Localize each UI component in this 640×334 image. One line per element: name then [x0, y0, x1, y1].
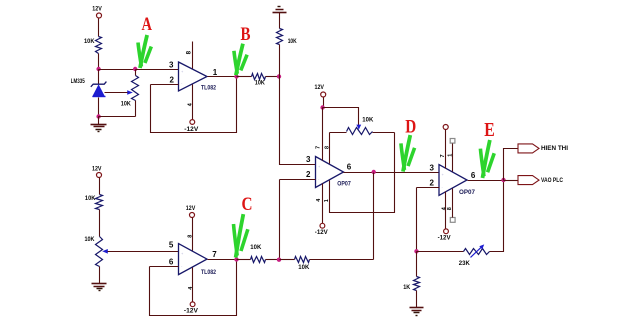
- wire R4 to pot P2: [99, 210, 101, 237]
- wire pot P1 bottom to ground node: [99, 116, 136, 118]
- svg-text:TL082: TL082: [201, 269, 216, 276]
- pin number 8 (rotated) of U2: [188, 235, 194, 238]
- label TL082 of U2: [201, 269, 216, 276]
- label 10K for R2: [255, 79, 265, 86]
- svg-text:10K: 10K: [84, 38, 95, 45]
- svg-text:10K: 10K: [85, 236, 95, 243]
- resistor R2 10K (horizontal): [252, 74, 266, 80]
- junction feedback node (bottom right): [414, 249, 418, 253]
- wire 12V port to R1: [98, 19, 100, 37]
- power port -12V of U2: [184, 302, 199, 315]
- power port -12V of U4: [438, 229, 452, 241]
- wire R1 to node A row: [98, 54, 100, 70]
- svg-text:23K: 23K: [459, 260, 470, 267]
- power port 12V (bottom left): [92, 165, 102, 177]
- op-amp U4 OP07 triangle: [439, 165, 467, 196]
- U3 offset loop pin 1 to trimmer: [330, 133, 395, 213]
- no-connect square pin 1 of U4: [450, 139, 455, 144]
- arrow C (green): [234, 214, 248, 258]
- label 10K for P2: [85, 236, 95, 243]
- junction at pot P1 top: [133, 67, 137, 71]
- wire U3 pin 2 down to feedback node: [279, 180, 281, 260]
- power port 12V of U3: [315, 84, 326, 97]
- svg-text:C: C: [242, 194, 253, 215]
- power port 12V (top left): [92, 6, 102, 18]
- wire ground to R3: [279, 13, 281, 29]
- svg-text:8: 8: [188, 235, 194, 238]
- svg-text:12V: 12V: [92, 165, 102, 172]
- potentiometer P2 10K (vertical): [96, 237, 103, 267]
- svg-text:3: 3: [306, 155, 311, 164]
- junction at ground node (top-left): [96, 114, 100, 118]
- wire pot P1 top to op-amp U1 pin 3: [136, 69, 179, 71]
- junction node D: [372, 170, 376, 174]
- wire 12V to R4: [99, 178, 101, 195]
- svg-text:10K: 10K: [85, 195, 96, 202]
- junction node at LM335 top: [96, 67, 100, 71]
- feedback wire U1 output to pin 2 (loop): [151, 77, 237, 133]
- op-amp U1 TL082 triangle: [179, 62, 208, 91]
- wire node E to VAO PLC: [504, 180, 519, 182]
- label pin 5 of U2: [169, 240, 174, 249]
- svg-text:-12V: -12V: [315, 229, 329, 236]
- label HIEN THI: [541, 145, 568, 152]
- label pin 2 of U3: [306, 170, 311, 179]
- U4 V- pin 4 line: [445, 192, 447, 229]
- svg-text:6: 6: [169, 257, 174, 266]
- wire node down to U3 pin 3: [280, 77, 316, 165]
- label A (red): [142, 14, 153, 35]
- label pin 6 of U4: [471, 171, 476, 180]
- wire R2 to node: [266, 76, 280, 78]
- label 10K for R1: [84, 38, 95, 45]
- pin number 8 (rotated) of U1: [185, 50, 192, 54]
- pin number 4 (rotated) of U4: [442, 206, 448, 210]
- svg-text:10K: 10K: [288, 38, 297, 45]
- wire U4 pin 2 down to feedback node: [416, 188, 418, 252]
- U3 V- pin 4 line: [322, 184, 324, 224]
- svg-text:2: 2: [306, 170, 311, 179]
- wire U1 output to node B: [208, 76, 237, 78]
- power port -12V of U1: [184, 120, 199, 133]
- label 10K for R5: [250, 244, 261, 251]
- label 10K for P1: [121, 101, 131, 108]
- feedback wire node D down: [373, 173, 375, 260]
- svg-text:TL082: TL082: [201, 84, 216, 91]
- label pin 1 of U1: [213, 68, 218, 77]
- U4 pin 8 line: [452, 189, 454, 218]
- wire 12V to junction: [323, 98, 325, 108]
- ground (inverted, top-middle): [273, 7, 287, 13]
- power port 12V of U2: [186, 205, 196, 218]
- wire U3 pin 2: [280, 179, 316, 181]
- svg-text:12V: 12V: [92, 6, 102, 13]
- svg-text:HIEN THI: HIEN THI: [541, 145, 568, 152]
- pin number 1 (rotated) of U4: [448, 154, 454, 157]
- svg-text:1: 1: [448, 154, 454, 157]
- svg-text:3: 3: [169, 60, 174, 69]
- svg-text:10K: 10K: [255, 79, 265, 86]
- svg-text:8: 8: [447, 207, 453, 210]
- svg-text:E: E: [484, 119, 495, 141]
- label OP07 of U4: [459, 189, 476, 196]
- wire U2 output to node C: [208, 259, 237, 261]
- svg-text:LM335: LM335: [71, 79, 85, 85]
- wire pot P2 to ground: [99, 267, 101, 284]
- feedback wire U2 output to pin 6 (loop): [150, 260, 237, 316]
- svg-text:OP07: OP07: [337, 181, 351, 188]
- svg-text:B: B: [241, 24, 251, 45]
- U2 V- pin 4 line: [192, 268, 194, 302]
- U3 V+ pin 7 line: [322, 108, 324, 161]
- junction node E: [501, 178, 505, 182]
- junction node B: [234, 74, 238, 78]
- svg-text:2: 2: [170, 76, 175, 85]
- connector HIEN THI (arrow port): [518, 144, 539, 153]
- wire U1 pin 2: [151, 84, 179, 86]
- U1 V+ pin 8 stub (up): [192, 42, 194, 69]
- svg-text:7: 7: [212, 250, 217, 259]
- wire ground node down: [98, 117, 100, 125]
- svg-text:5: 5: [169, 240, 174, 249]
- pin number 4 (rotated) of U2: [188, 286, 194, 290]
- no-connect square pin 8 of U4: [450, 218, 455, 223]
- label pin 6 of U3: [347, 163, 352, 172]
- label pin 3 of U1: [169, 60, 174, 69]
- label pin 2 of U1: [170, 76, 175, 85]
- LM335 sensor (zener symbol): [91, 70, 107, 117]
- pin number 7 (rotated) of U3: [316, 146, 322, 149]
- pin number 8 (rotated) of U4: [447, 207, 453, 210]
- wire node down to R7 1K: [416, 252, 418, 277]
- wiper arrow of trimmer P3: [356, 125, 361, 130]
- svg-text:8: 8: [185, 50, 192, 54]
- connector VAO PLC (arrow port): [518, 176, 539, 185]
- wire node E up to HIEN THI: [504, 149, 519, 181]
- label pin 3 of U3: [306, 155, 311, 164]
- label E (red): [484, 119, 495, 141]
- resistor R6 10K (horizontal): [295, 257, 310, 263]
- arrow E (green): [480, 140, 494, 178]
- U4 pin 1 line: [452, 144, 454, 172]
- wiper of P1 (arrow + wire to LM335): [105, 90, 133, 95]
- label 1K for R7: [403, 284, 410, 291]
- U3 pin 8 line: [329, 133, 331, 164]
- op-amp U2 TL082 triangle: [179, 244, 208, 275]
- U2 V+ pin 8 line: [192, 218, 194, 251]
- wire junction to R6: [280, 259, 295, 261]
- label D (red): [405, 118, 416, 138]
- wire U4 output to node E: [468, 180, 504, 182]
- arrow D (green): [401, 135, 415, 172]
- resistor R4 10K (vertical): [96, 195, 103, 210]
- wire node B to R2: [237, 76, 252, 78]
- wire node to pot P1 top: [99, 69, 136, 71]
- ground (bottom right): [410, 308, 424, 316]
- resistor R7 1K (vertical): [414, 277, 420, 291]
- ground (top-left): [91, 125, 107, 132]
- label C (red): [242, 194, 253, 215]
- resistor R1 10K (vertical): [96, 37, 102, 54]
- svg-text:6: 6: [471, 171, 476, 180]
- trimmer P3 10K (offset null, horizontal): [330, 128, 395, 135]
- arrow B (green): [234, 44, 247, 75]
- label OP07 of U3: [337, 181, 351, 188]
- pin number 4 (rotated) of U1: [188, 102, 194, 106]
- junction at U3 V+ node: [320, 105, 324, 109]
- wire node C to R5: [237, 259, 251, 261]
- label pin 3 of U4: [429, 163, 434, 172]
- svg-text:10K: 10K: [362, 116, 373, 123]
- svg-text:12V: 12V: [186, 205, 196, 212]
- ground (bottom-left): [92, 284, 107, 291]
- label 10K for R4: [85, 195, 96, 202]
- svg-text:7: 7: [440, 154, 446, 157]
- svg-text:10K: 10K: [298, 264, 309, 271]
- svg-text:7: 7: [316, 146, 322, 149]
- op-amp U3 OP07 triangle: [316, 157, 344, 188]
- U4 V+ pin 7 line: [445, 130, 447, 169]
- label 23K for P4: [459, 260, 470, 267]
- svg-text:D: D: [405, 118, 416, 138]
- svg-text:-12V: -12V: [438, 234, 452, 241]
- label 10K for P3: [362, 116, 373, 123]
- potentiometer P1 10K (vertical): [132, 70, 139, 117]
- label LM335: [71, 79, 85, 85]
- wire node to trimmer 23K: [417, 251, 464, 253]
- junction node C: [234, 257, 238, 261]
- label pin 2 of U4: [429, 179, 434, 188]
- junction after R2: [277, 74, 281, 78]
- arrow A (green): [138, 35, 151, 68]
- svg-text:-12V: -12V: [184, 308, 199, 315]
- wire U2 pin 6: [150, 266, 179, 268]
- wiper of P2 (arrow + wire to U2 pin 5): [102, 249, 178, 254]
- junction between R5 and R6: [277, 258, 281, 262]
- resistor R3 10K (vertical): [277, 29, 283, 45]
- pin number 7 (rotated) of U4: [440, 154, 446, 157]
- svg-text:A: A: [142, 14, 153, 35]
- svg-text:1K: 1K: [403, 284, 410, 291]
- pin number 1 (rotated) of U3: [324, 199, 330, 202]
- svg-text:1: 1: [213, 68, 218, 77]
- pin number 4 (rotated) of U3: [316, 198, 322, 202]
- wire 23K to output node (feedback): [490, 181, 504, 252]
- svg-text:6: 6: [347, 163, 352, 172]
- svg-text:12V: 12V: [315, 84, 325, 91]
- wire R5 to junction: [266, 259, 280, 261]
- svg-text:10K: 10K: [250, 244, 261, 251]
- svg-text:2: 2: [429, 179, 434, 188]
- label 10K for R6: [298, 264, 309, 271]
- svg-text:1: 1: [324, 199, 330, 202]
- resistor R5 10K (horizontal): [251, 257, 266, 263]
- U1 V- pin 4 line (down): [192, 85, 194, 120]
- wire 12V node to trimmer wiper: [323, 108, 359, 126]
- wire R3 to node: [279, 45, 281, 77]
- svg-text:VAO PLC: VAO PLC: [541, 177, 563, 184]
- label B (red): [241, 24, 251, 45]
- power port (top) of U4: [443, 125, 448, 130]
- wire R6 to node D feedback: [310, 259, 374, 261]
- label TL082 of U1: [201, 84, 216, 91]
- label 10K for R3: [288, 38, 297, 45]
- wire R7 to ground: [416, 291, 418, 308]
- svg-text:OP07: OP07: [459, 189, 476, 196]
- trimmer P4 23K (horizontal): [464, 244, 490, 257]
- wire U4 pin 2: [417, 187, 440, 189]
- label VAO PLC: [541, 177, 563, 184]
- label pin 6 of U2: [169, 257, 174, 266]
- wire U3 output to U4 pin 3 (node D row): [344, 172, 440, 174]
- power port -12V of U3: [315, 223, 329, 236]
- svg-text:10K: 10K: [121, 101, 131, 108]
- pin number 8 (rotated) of U3: [325, 146, 331, 149]
- label pin 7 of U2: [212, 250, 217, 259]
- svg-text:3: 3: [429, 163, 434, 172]
